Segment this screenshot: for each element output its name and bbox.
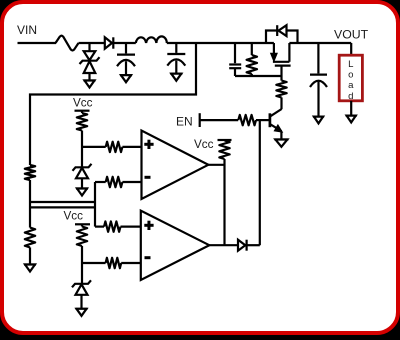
ground — [76, 308, 88, 310]
wire — [350, 101, 352, 116]
wire — [121, 262, 141, 264]
wire — [30, 206, 95, 208]
ground — [84, 79, 96, 81]
resistor R10 — [104, 221, 121, 231]
wire — [82, 262, 106, 264]
svg-text:a: a — [348, 80, 354, 91]
wire — [30, 201, 95, 203]
wire — [234, 68, 236, 76]
resistor R11 — [106, 258, 122, 268]
wire — [125, 61, 127, 75]
wire — [81, 178, 83, 188]
wire — [29, 247, 31, 264]
wire — [350, 43, 352, 55]
svg-text:Vcc: Vcc — [194, 138, 214, 151]
wire — [94, 182, 96, 227]
diode D3 — [276, 25, 278, 36]
diode D2 — [105, 37, 112, 48]
resistor R8 — [106, 142, 123, 152]
wire — [18, 42, 57, 44]
wire — [113, 42, 136, 44]
ground — [24, 263, 36, 265]
wire — [280, 131, 282, 139]
wire — [287, 31, 298, 44]
TVS diode D1 — [84, 51, 96, 60]
wire — [200, 119, 239, 121]
ground — [170, 73, 182, 75]
diode D6 — [238, 240, 245, 251]
resistor R7 — [77, 227, 87, 247]
wire — [235, 75, 282, 77]
svg-text:EN: EN — [176, 114, 193, 128]
wire — [79, 42, 105, 44]
ground — [76, 187, 88, 189]
wire — [209, 244, 238, 246]
fuse F1 — [56, 36, 79, 51]
svg-text:VIN: VIN — [17, 23, 37, 37]
wire — [95, 226, 104, 228]
wire — [223, 159, 225, 245]
svg-text:Vcc: Vcc — [64, 210, 84, 223]
wire — [88, 73, 90, 81]
wire — [266, 31, 277, 44]
wire — [280, 97, 282, 109]
wire — [30, 43, 196, 165]
wire — [167, 42, 274, 44]
wire — [256, 119, 269, 121]
wire — [81, 111, 83, 113]
wire — [175, 61, 177, 74]
op-amp U2 — [141, 211, 210, 280]
wire — [175, 43, 177, 53]
wire — [208, 164, 224, 166]
load — [339, 55, 362, 101]
wire — [81, 224, 83, 226]
wire — [317, 82, 319, 117]
inductor L1 — [136, 36, 167, 43]
wire — [95, 181, 106, 183]
wire — [317, 43, 319, 73]
resistor R6 — [25, 228, 35, 248]
wire — [280, 66, 282, 80]
wire — [121, 226, 141, 228]
ground — [313, 115, 324, 117]
capacitor C1 — [117, 53, 135, 55]
transistor Q2 — [269, 113, 272, 127]
resistor R9 — [106, 177, 123, 187]
zener diode D4 — [73, 164, 92, 171]
ground — [120, 74, 132, 76]
wire — [234, 43, 236, 63]
resistor R3 — [238, 115, 256, 125]
wire — [122, 181, 141, 183]
svg-text:Vcc: Vcc — [73, 97, 93, 110]
wire — [122, 146, 141, 148]
wire — [251, 43, 253, 55]
wire — [81, 246, 83, 283]
svg-text:o: o — [348, 70, 353, 81]
resistor R5 — [25, 165, 35, 180]
ground — [274, 138, 288, 140]
wire — [251, 74, 253, 76]
wire — [88, 43, 90, 51]
ground — [346, 114, 357, 116]
svg-text:d: d — [348, 91, 353, 102]
svg-text:L: L — [348, 59, 354, 70]
resistor R1 — [247, 55, 257, 74]
wire — [29, 180, 31, 228]
resistor R4 — [77, 113, 87, 131]
wire — [259, 120, 261, 245]
capacitor C2 — [167, 53, 185, 55]
wire — [82, 146, 106, 148]
capacitor C4 — [310, 73, 327, 75]
wire — [80, 295, 82, 309]
wire — [247, 244, 260, 246]
zener diode D5 — [72, 280, 91, 287]
svg-text:VOUT: VOUT — [334, 28, 369, 42]
wire — [125, 43, 127, 53]
wire — [289, 42, 351, 44]
op-amp U1 — [142, 131, 209, 200]
resistor R12 — [219, 141, 229, 160]
MOSFET Q1 — [273, 43, 275, 55]
resistor R2 — [276, 81, 286, 98]
capacitor C3 — [229, 63, 241, 65]
wire — [81, 131, 83, 167]
